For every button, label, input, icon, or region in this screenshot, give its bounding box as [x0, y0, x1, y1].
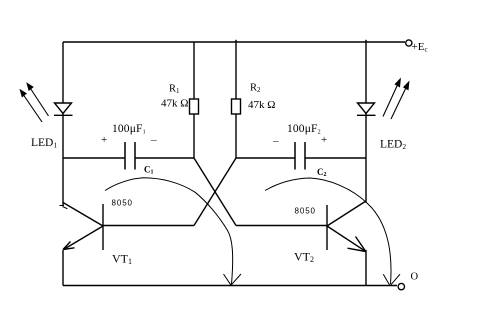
cross-coupling wire R2 to VT1 base — [194, 158, 236, 226]
right rail mid segment (LED2 to collector junction) — [365, 115, 367, 202]
svg-text:+: + — [101, 134, 107, 146]
wire C1 right — [135, 157, 194, 159]
feedback arc left with arrow — [105, 178, 241, 285]
svg-text:–: – — [272, 135, 279, 147]
transistor VT1 collector — [63, 203, 103, 227]
LED2 light arrow a — [383, 79, 401, 117]
svg-text:R2: R2 — [250, 83, 261, 95]
resistor R1 branch top wire — [193, 42, 195, 99]
svg-text:100μF2: 100μF2 — [287, 123, 321, 136]
left rail lower segment — [62, 250, 64, 286]
svg-text:LED2: LED2 — [380, 139, 406, 152]
transistor VT2 base bar — [326, 205, 328, 250]
transistor VT1 base bar — [102, 204, 104, 250]
svg-text:8050: 8050 — [295, 207, 316, 216]
LED2 light arrow b — [391, 82, 409, 120]
LED D2 symbol — [357, 103, 376, 115]
svg-text:+: + — [321, 134, 327, 146]
resistor R1 body — [190, 99, 199, 114]
cross-coupling wire R1 to VT2 base — [194, 158, 236, 226]
left rail upper segment — [62, 42, 64, 103]
wire C2 left — [236, 157, 295, 159]
svg-text:O: O — [411, 272, 419, 283]
svg-text:8050: 8050 — [112, 199, 133, 208]
capacitor C2 plates — [295, 142, 305, 170]
transistor VT2 collector — [327, 201, 366, 226]
svg-text:100μF1: 100μF1 — [112, 123, 146, 136]
collector start tick marks — [60, 206, 68, 209]
svg-text:47k Ω: 47k Ω — [248, 99, 275, 111]
resistor R2 branch top wire — [235, 40, 237, 99]
terminal O circle — [398, 283, 404, 289]
capacitor C1 plates — [125, 142, 135, 170]
resistor R2 body — [232, 99, 241, 114]
feedback arc right with arrow — [265, 178, 400, 286]
right rail lower segment (emitter to bottom wire) — [365, 250, 367, 286]
svg-text:–: – — [150, 134, 157, 146]
svg-text:VT2: VT2 — [294, 250, 314, 265]
transistor VT2 emitter with arrow — [327, 226, 366, 252]
svg-text:VT1: VT1 — [112, 252, 132, 267]
left rail mid segment — [62, 115, 64, 206]
LED D1 symbol — [54, 103, 73, 115]
resistor R1 bottom wire — [193, 114, 195, 158]
transistor VT1 emitter with arrow — [63, 226, 103, 250]
terminal +Ec — [406, 40, 412, 46]
top supply wire — [63, 41, 405, 43]
svg-text:LED1: LED1 — [31, 137, 57, 150]
resistor R2 bottom wire — [235, 114, 237, 158]
wire C1 left — [63, 157, 125, 159]
svg-text:R1: R1 — [169, 84, 180, 96]
transistor VT1 base wire — [103, 225, 194, 227]
wire C2 right — [305, 157, 366, 159]
svg-text:C1: C1 — [144, 165, 154, 176]
LED1 light arrow a — [27, 83, 49, 116]
svg-text:47k Ω: 47k Ω — [161, 98, 188, 110]
svg-text:C2: C2 — [317, 167, 327, 178]
right rail upper segment — [365, 40, 367, 103]
bottom wire — [63, 285, 397, 287]
LED1 light arrow b — [20, 90, 42, 123]
transistor VT2 base wire — [236, 225, 327, 227]
svg-text:+Ec: +Ec — [412, 41, 428, 54]
